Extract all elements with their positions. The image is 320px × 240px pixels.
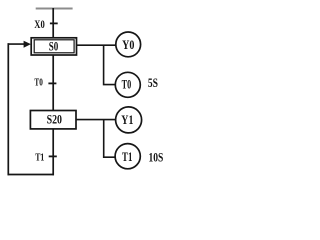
wire: feedback into S0 (8, 43, 25, 45)
svg-text:Y0: Y0 (122, 38, 134, 52)
wire: branch down to timer T1 (104, 120, 115, 158)
svg-text:10S: 10S (149, 150, 164, 164)
svg-text:S0: S0 (49, 39, 59, 53)
initial step S0 (double box) (31, 38, 76, 55)
transition T0 (tick) (48, 82, 56, 84)
wire: branch down to timer T0 (104, 45, 116, 84)
wire: left return riser (7, 43, 9, 175)
svg-text:T1: T1 (122, 150, 132, 164)
timer coil T1 (115, 144, 140, 169)
arrowhead into S0 (24, 41, 31, 48)
svg-text:5S: 5S (148, 76, 158, 90)
top power rail (gray bar) (36, 8, 73, 10)
wire: top rail to step S0 (52, 8, 54, 38)
wire: S0 to S20 (52, 55, 54, 111)
transition X0 (tick) (50, 22, 58, 24)
svg-text:T0: T0 (122, 78, 132, 92)
timer coil T0 (115, 72, 140, 97)
wire: S0 to output Y0 (77, 44, 116, 46)
svg-text:X0: X0 (34, 18, 45, 31)
wire: S20 to output Y1 (76, 119, 116, 121)
svg-text:S20: S20 (47, 113, 62, 127)
wire: S20 down (52, 129, 54, 175)
transition T1 (tick) (49, 155, 57, 157)
svg-text:T0: T0 (34, 76, 42, 88)
svg-text:Y1: Y1 (121, 112, 133, 127)
step S20 (box) (30, 111, 76, 129)
output coil Y0 (116, 32, 141, 57)
svg-text:T1: T1 (35, 151, 44, 163)
output coil Y1 (116, 107, 142, 133)
wire: bottom return (loop back) (8, 174, 55, 176)
